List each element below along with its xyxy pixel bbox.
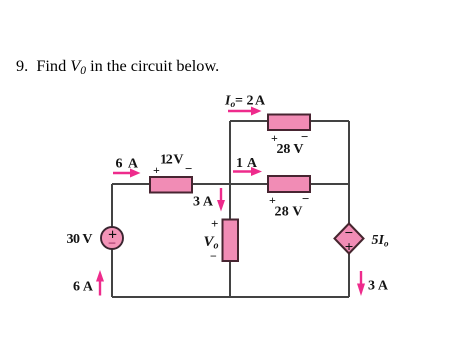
svg-text:9. Find V0 in the circuit bel: 9. Find V0 in the circuit below. (16, 56, 219, 77)
svg-text:28 V: 28 V (277, 142, 304, 157)
arrow 6A bottom (up) (96, 270, 104, 296)
svg-text:−: − (302, 191, 309, 206)
wire middle vertical (229, 121, 231, 297)
wire left vertical (111, 184, 113, 297)
svg-text:30 V: 30 V (67, 232, 93, 247)
arrow Io (228, 107, 262, 116)
svg-text:−: − (210, 249, 217, 263)
svg-text:3 A: 3 A (368, 279, 389, 294)
svg-text:12 V: 12 V (160, 153, 184, 168)
svg-text:3 A: 3 A (193, 195, 214, 210)
wire middle horizontal (112, 183, 349, 185)
dependent source 5Io diamond (335, 224, 364, 254)
resistor 28V top (268, 115, 310, 131)
svg-text:Io=2A: Io=2A (224, 94, 266, 111)
svg-text:6 A: 6 A (116, 157, 139, 172)
svg-text:+: + (153, 163, 160, 177)
svg-text:+: + (211, 216, 218, 231)
arrow 3A middle (down) (217, 188, 225, 212)
svg-text:−: − (108, 236, 116, 252)
arrow 3A bottom (down) (357, 271, 365, 296)
arrow 6A top (113, 169, 141, 178)
svg-text:5Io: 5Io (372, 233, 389, 249)
wire right vertical (348, 121, 350, 297)
svg-text:28 V: 28 V (275, 205, 303, 220)
resistor 12V (150, 177, 192, 193)
svg-text:+: + (345, 240, 354, 256)
svg-text:6 A: 6 A (73, 280, 94, 295)
wire bottom horizontal (112, 296, 349, 298)
voltage source 30V (101, 227, 123, 249)
resistor Vo vertical (223, 220, 239, 262)
arrow 1A (233, 167, 262, 176)
svg-text:−: − (185, 161, 192, 176)
resistor 28V middle (268, 176, 310, 192)
wire top horizontal (230, 120, 349, 122)
